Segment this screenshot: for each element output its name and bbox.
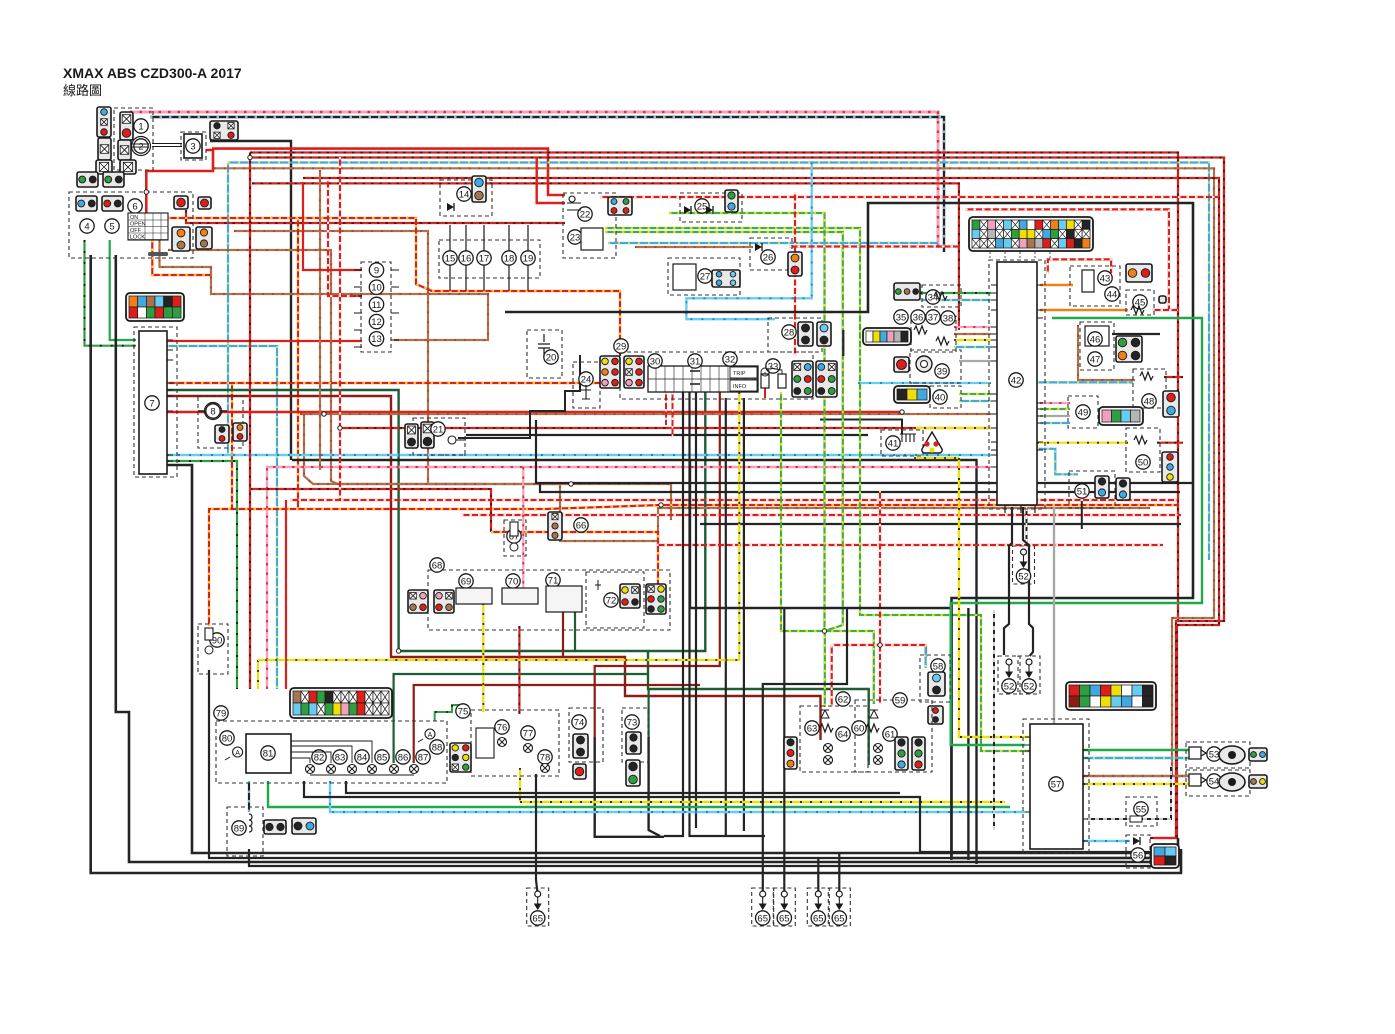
component 43 bbox=[1098, 271, 1112, 285]
svg-text:84: 84 bbox=[357, 752, 368, 763]
svg-text:26: 26 bbox=[763, 252, 774, 263]
blue connector 4 bbox=[76, 196, 97, 211]
cluster 68 box bbox=[428, 570, 670, 630]
wire gnd drop 5 bbox=[838, 853, 840, 891]
relay 27 box bbox=[673, 264, 696, 290]
wire black corridor 524 bbox=[700, 523, 1181, 525]
item 50 box bbox=[1126, 428, 1160, 472]
wire maroon corridor bbox=[167, 396, 821, 740]
component 9 bbox=[369, 263, 383, 277]
item 73 box bbox=[622, 708, 648, 762]
fuse 90 bbox=[205, 628, 213, 654]
component 40 bbox=[933, 390, 947, 404]
res 60 bbox=[866, 724, 879, 732]
orange conn 6d bbox=[196, 227, 212, 249]
wire gnd drop 1 bbox=[536, 774, 538, 894]
wire black from fuse box bbox=[210, 141, 291, 460]
wire dark green corridor bbox=[167, 390, 705, 651]
wire brown 46 bbox=[1078, 325, 1135, 380]
42 pins left bbox=[991, 285, 997, 467]
wire yellow 75 down bbox=[519, 768, 521, 802]
svg-text:46: 46 bbox=[1090, 334, 1101, 345]
indicator lamp bbox=[368, 765, 377, 774]
svg-text:86: 86 bbox=[398, 752, 409, 763]
conn 89b bbox=[292, 818, 316, 834]
component 74 bbox=[572, 715, 586, 729]
component 59 bbox=[893, 693, 907, 707]
fuse 8 dashed box bbox=[198, 396, 243, 448]
svg-text:5: 5 bbox=[109, 221, 114, 232]
component 67 bbox=[507, 529, 521, 543]
svg-text:58: 58 bbox=[933, 661, 944, 672]
wire yellow meter down bbox=[258, 392, 739, 660]
wire blue 49 bbox=[1040, 422, 1070, 424]
conn 50 bbox=[1162, 452, 1178, 482]
svg-text:線路圖: 線路圖 bbox=[63, 83, 102, 98]
conn 14 bbox=[472, 176, 486, 202]
fuse box 1 dashed bbox=[114, 108, 153, 170]
svg-text:81: 81 bbox=[263, 748, 274, 759]
diode 25b bbox=[706, 206, 713, 214]
svg-text:65: 65 bbox=[834, 913, 845, 924]
wire black corridor 492 bbox=[540, 483, 1180, 492]
ignition switch table bbox=[128, 213, 168, 241]
svg-text:89: 89 bbox=[234, 823, 245, 834]
svg-text:70: 70 bbox=[508, 576, 519, 587]
relay 69 bbox=[456, 588, 492, 604]
component 42 bbox=[1009, 373, 1023, 387]
conn 68a bbox=[408, 590, 428, 613]
component 56 bbox=[1131, 848, 1145, 862]
wire black below 74 bbox=[595, 737, 664, 837]
lamp 61b bbox=[874, 756, 883, 765]
wire black v843 bbox=[842, 330, 844, 356]
component 24 bbox=[579, 372, 593, 386]
svg-text:23: 23 bbox=[570, 232, 581, 243]
wire red/black bus a bbox=[250, 153, 1178, 622]
component 51 bbox=[1075, 484, 1089, 498]
fuse 67 bbox=[510, 522, 518, 551]
conn 59 left bbox=[784, 737, 797, 769]
wire blue 53 bbox=[1083, 757, 1189, 759]
wire chartreuse relay a bbox=[605, 228, 1030, 751]
relay 70 bbox=[502, 588, 538, 604]
42 pins right bbox=[1037, 285, 1043, 450]
lamp 63 bbox=[824, 744, 833, 753]
conn 54 tail bbox=[1249, 775, 1267, 788]
42 bottom stubs bbox=[1005, 505, 1035, 513]
wire black v968 bbox=[967, 608, 969, 860]
wire brown 54 bbox=[1083, 775, 1189, 777]
wire brown 36 bbox=[954, 333, 991, 335]
svg-text:52: 52 bbox=[1018, 571, 1029, 582]
svg-text:25: 25 bbox=[697, 201, 708, 212]
green connector b bbox=[103, 172, 124, 187]
wire red/white 45 tail bbox=[1152, 309, 1178, 311]
wire black jog down a bbox=[725, 398, 727, 836]
wire brown ignition c bbox=[234, 231, 671, 520]
component 49 bbox=[1076, 405, 1090, 419]
conn 8a bbox=[215, 425, 229, 443]
svg-text:XMAX ABS CZD300-A 2017: XMAX ABS CZD300-A 2017 bbox=[63, 65, 242, 81]
wire brown v320 bbox=[319, 170, 321, 470]
item 53 box bbox=[1186, 742, 1250, 768]
wire black/blue bus bbox=[150, 117, 944, 252]
svg-text:12: 12 bbox=[371, 317, 382, 328]
res 48 bbox=[1140, 372, 1153, 380]
svg-text:37: 37 bbox=[928, 312, 939, 323]
wire green corridor bottom bbox=[268, 781, 1010, 807]
component 47 bbox=[1088, 352, 1102, 366]
svg-text:74: 74 bbox=[574, 717, 585, 728]
wire brown ignition bbox=[160, 240, 489, 340]
ground 52 a bbox=[1013, 546, 1035, 584]
svg-text:55: 55 bbox=[1136, 804, 1147, 815]
relay 23 box bbox=[581, 228, 603, 250]
component 28 bbox=[782, 325, 796, 339]
component 44 bbox=[1105, 287, 1119, 301]
wire red corridor 515 bbox=[461, 514, 1181, 516]
component 3 bbox=[186, 139, 200, 153]
wire black 21 to 24 bbox=[458, 355, 580, 438]
57 pins bbox=[1025, 737, 1088, 841]
svg-text:A: A bbox=[428, 732, 433, 739]
item 51 box bbox=[1069, 471, 1115, 508]
svg-text:47: 47 bbox=[1090, 354, 1101, 365]
component 87 bbox=[416, 750, 430, 764]
wire darkgreen 71 down bbox=[574, 610, 576, 651]
cluster 59-61 box bbox=[855, 700, 932, 772]
svg-text:7: 7 bbox=[149, 398, 154, 409]
wire chartreuse meter bbox=[781, 392, 874, 704]
lamp 77 bbox=[524, 744, 533, 753]
lamp 61 bbox=[874, 744, 883, 753]
wire blue 40 bbox=[959, 400, 991, 402]
wire red 50 out bbox=[1157, 442, 1183, 444]
conn 43 bbox=[1126, 264, 1152, 282]
battery connector bbox=[97, 107, 111, 137]
svg-text:10: 10 bbox=[371, 283, 382, 294]
comb 41 bbox=[900, 434, 916, 442]
relay 75 box bbox=[476, 728, 494, 758]
component 33 bbox=[766, 359, 780, 373]
component 60 bbox=[852, 721, 866, 735]
wire red corridor 489 bbox=[250, 489, 491, 532]
svg-text:54: 54 bbox=[1209, 776, 1220, 787]
svg-text:40: 40 bbox=[935, 392, 946, 403]
indicator lamp bbox=[348, 765, 357, 774]
wire brown diode26 bbox=[635, 246, 753, 248]
wire red 56 bbox=[1155, 837, 1176, 839]
conn 72a bbox=[620, 584, 640, 608]
indicator lamp bbox=[306, 765, 315, 774]
component 12 bbox=[369, 314, 383, 328]
component 29 bbox=[614, 339, 628, 353]
svg-text:4: 4 bbox=[84, 221, 89, 232]
svg-text:8: 8 bbox=[210, 406, 215, 417]
component 19 bbox=[521, 251, 535, 265]
wire black 51 down bbox=[1081, 501, 1083, 529]
svg-text:76: 76 bbox=[497, 722, 508, 733]
item 89 box bbox=[227, 807, 263, 856]
wire red/yellow box7 bbox=[167, 382, 620, 384]
res 45 bbox=[1131, 306, 1144, 314]
res 50 bbox=[1134, 436, 1147, 444]
component 89 bbox=[232, 821, 246, 835]
svg-text:75: 75 bbox=[458, 706, 469, 717]
relay 22 contacts bbox=[567, 196, 581, 210]
svg-text:TRIP: TRIP bbox=[733, 371, 746, 377]
item 54 box bbox=[1186, 770, 1250, 796]
svg-text:18: 18 bbox=[504, 253, 515, 264]
conn 27 bbox=[712, 270, 740, 287]
component 72 bbox=[604, 593, 618, 607]
svg-text:82: 82 bbox=[314, 752, 325, 763]
ABS connector B bbox=[1066, 682, 1156, 710]
svg-text:41: 41 bbox=[888, 438, 899, 449]
conn 25 top bbox=[725, 190, 738, 212]
diode 25a bbox=[684, 206, 691, 214]
diode 59 sym bbox=[870, 710, 878, 718]
wire yellow 42 jog bbox=[914, 457, 959, 459]
svg-text:56: 56 bbox=[1133, 850, 1144, 861]
svg-text:60: 60 bbox=[854, 723, 865, 734]
capacitor 20 bbox=[538, 334, 550, 356]
conn 51b bbox=[1116, 478, 1130, 500]
wire yellow long v bbox=[959, 458, 1030, 737]
wire red meter33 bbox=[764, 374, 766, 398]
component 46 bbox=[1088, 332, 1102, 346]
wire red diode26 out bbox=[789, 245, 959, 247]
item 39 box bbox=[910, 350, 961, 383]
conn 39left bbox=[894, 357, 909, 372]
conn 47 bbox=[1116, 336, 1142, 362]
ecu stubs bbox=[990, 252, 1050, 260]
svg-text:83: 83 bbox=[335, 752, 346, 763]
wire main fuse pink/red bus bbox=[130, 112, 938, 248]
ECU connector bbox=[969, 217, 1093, 251]
component 75 bbox=[456, 704, 470, 718]
component 11 bbox=[369, 297, 383, 311]
diode 62 sym bbox=[821, 710, 829, 718]
wire red corridor 545 bbox=[656, 544, 1163, 546]
conn 29a bbox=[600, 356, 620, 388]
item 27 dashed box bbox=[668, 258, 740, 295]
svg-text:45: 45 bbox=[1135, 297, 1146, 308]
wire red/black corridor 428 bbox=[340, 427, 991, 429]
item 21 dashed box bbox=[413, 418, 465, 455]
component 69 bbox=[459, 574, 473, 588]
component 84 bbox=[355, 750, 369, 764]
wire red/yellow ignition tail bbox=[152, 240, 211, 275]
conn 72b bbox=[646, 584, 666, 614]
wire blue v227 bbox=[227, 163, 229, 456]
item 48 box bbox=[1133, 369, 1166, 408]
wire black corridor 460 bbox=[292, 460, 977, 618]
wire gray 49 bbox=[1040, 415, 1070, 417]
ignition bar bbox=[148, 252, 168, 256]
svg-text:64: 64 bbox=[838, 729, 849, 740]
svg-text:65: 65 bbox=[779, 913, 790, 924]
wire cyan 383 bbox=[858, 382, 991, 384]
item 66 bbox=[574, 518, 588, 532]
svg-text:38: 38 bbox=[943, 313, 954, 324]
wire yellow meter bbox=[257, 660, 259, 689]
svg-text:69: 69 bbox=[461, 576, 472, 587]
wire black 42 gnd b bbox=[1023, 507, 1033, 656]
wire yellow corridor bottom bbox=[520, 801, 1005, 804]
svg-text:43: 43 bbox=[1100, 273, 1111, 284]
component 20 bbox=[544, 350, 558, 364]
svg-text:16: 16 bbox=[461, 253, 472, 264]
wire chartreuse diode25 bbox=[669, 213, 825, 631]
component 32 bbox=[723, 352, 737, 366]
wire red loop ecu inner bbox=[1048, 259, 1111, 274]
component 6 bbox=[128, 199, 142, 213]
main switch 3 dashed bbox=[181, 132, 206, 160]
wire brown corridor mid bbox=[300, 413, 991, 415]
item 46 box bbox=[1080, 322, 1114, 370]
small conn 6b bbox=[198, 197, 211, 209]
svg-text:24: 24 bbox=[581, 374, 592, 385]
svg-text:72: 72 bbox=[606, 595, 617, 606]
component 23 bbox=[568, 230, 582, 244]
wire red 48 out bbox=[1164, 376, 1183, 378]
conn 73b bbox=[626, 760, 640, 786]
svg-text:48: 48 bbox=[1144, 396, 1155, 407]
component 54 bbox=[1207, 774, 1221, 788]
wire black meter down c bbox=[695, 392, 697, 828]
wire black 89 down bbox=[249, 849, 1170, 866]
conn 26 bbox=[788, 252, 802, 276]
component 10 bbox=[369, 280, 383, 294]
wire black meter down b bbox=[690, 392, 766, 836]
wire red box7 341 bbox=[167, 340, 362, 342]
ground 65 bbox=[752, 888, 774, 926]
conn 29b bbox=[624, 356, 644, 388]
wire cyan corridor bbox=[167, 454, 991, 457]
conn 66 bbox=[548, 512, 562, 540]
wire black left outer bbox=[91, 255, 1181, 873]
fuse 2 connector b bbox=[118, 140, 131, 160]
conn 33b bbox=[816, 361, 837, 397]
svg-text:51: 51 bbox=[1077, 486, 1088, 497]
svg-text:79: 79 bbox=[216, 708, 227, 719]
item 26 dashed box bbox=[750, 238, 792, 270]
svg-text:20: 20 bbox=[546, 352, 557, 363]
wire chartreuse 40 bbox=[959, 393, 991, 395]
wire brown branch down bbox=[304, 414, 1150, 541]
wire red/yellow v232 bbox=[231, 383, 233, 509]
component 70 bbox=[506, 574, 520, 588]
conn 59 right a bbox=[895, 737, 908, 770]
wire brown ignition b bbox=[168, 250, 486, 484]
wire black jog down b bbox=[743, 398, 745, 831]
wire chartreuse 49 bbox=[1040, 408, 1070, 410]
conn 74b bbox=[573, 764, 586, 779]
svg-text:27: 27 bbox=[700, 271, 711, 282]
coil 89 bbox=[249, 814, 252, 832]
component 27 bbox=[698, 269, 712, 283]
component 7 bbox=[145, 396, 159, 410]
wire red bus 2 bbox=[303, 178, 1219, 838]
conn 35 6pin bbox=[863, 328, 911, 345]
item 41 box bbox=[881, 430, 923, 456]
wire red/black bus b bbox=[250, 158, 1224, 839]
wire cyan 27 wrap bbox=[686, 163, 811, 320]
lamp 78 bbox=[541, 764, 550, 773]
meter assembly 30-33 bbox=[648, 366, 758, 392]
svg-text:14: 14 bbox=[459, 189, 470, 200]
wire maroon 71 down bbox=[562, 610, 564, 657]
component 26 bbox=[761, 250, 775, 264]
component 2 bbox=[132, 137, 151, 156]
wire red/yellow ignition bbox=[168, 218, 620, 356]
conn 74 bbox=[573, 734, 588, 758]
component 17 bbox=[477, 251, 491, 265]
component 18 bbox=[502, 251, 516, 265]
wire red/yellow 532 bbox=[491, 532, 658, 584]
lamp 63b bbox=[824, 756, 833, 765]
svg-text:59: 59 bbox=[895, 695, 906, 706]
wire red/white 63 feed bbox=[831, 645, 833, 707]
ground 52 b bbox=[998, 656, 1020, 694]
svg-text:65: 65 bbox=[532, 913, 543, 924]
component 73 bbox=[625, 715, 639, 729]
svg-text:62: 62 bbox=[838, 694, 849, 705]
main switch 3 box bbox=[184, 134, 202, 158]
connector Ga bbox=[290, 688, 392, 718]
wire red riser 340 bbox=[339, 470, 341, 500]
21 plug bbox=[448, 436, 466, 444]
item 28 dashed box bbox=[768, 318, 822, 352]
fuse 1 connector bbox=[120, 112, 133, 140]
component 68 bbox=[430, 558, 444, 572]
diode 24 sym bbox=[581, 385, 591, 399]
wire yellow 69 bbox=[482, 603, 484, 712]
component 78 bbox=[538, 750, 552, 764]
wire gray 57 top bbox=[1053, 507, 1055, 724]
component 53 bbox=[1207, 747, 1221, 761]
connector 2c bbox=[120, 160, 136, 174]
cluster 75-78 box bbox=[471, 710, 559, 776]
component 30 bbox=[648, 354, 662, 368]
conn 59 right b bbox=[912, 737, 925, 770]
component 37 bbox=[926, 310, 940, 324]
svg-text:73: 73 bbox=[627, 717, 638, 728]
wire red loop ecu top bbox=[965, 209, 1169, 310]
svg-text:65: 65 bbox=[813, 913, 824, 924]
component 80 bbox=[220, 731, 234, 745]
component 39 bbox=[935, 364, 949, 378]
svg-text:36: 36 bbox=[913, 312, 924, 323]
wire black 46 bbox=[1112, 333, 1160, 335]
wire blue 38 bbox=[954, 346, 991, 348]
wire cyan 56 bbox=[1083, 840, 1130, 842]
item 45 box bbox=[1126, 290, 1154, 315]
rectifier box 7 bbox=[139, 331, 167, 474]
wire red bus to relay bbox=[212, 149, 565, 195]
wire black stub 41 bbox=[820, 420, 902, 435]
svg-text:22: 22 bbox=[580, 209, 591, 220]
wire blue 58 bbox=[924, 645, 926, 668]
component 90 bbox=[210, 633, 224, 647]
wire red corridor 500 bbox=[290, 499, 1178, 501]
wire gnd drop 4 bbox=[817, 858, 819, 891]
wire black v976 bbox=[975, 618, 977, 864]
cluster 62-64 box bbox=[800, 706, 868, 772]
svg-text:85: 85 bbox=[377, 752, 388, 763]
